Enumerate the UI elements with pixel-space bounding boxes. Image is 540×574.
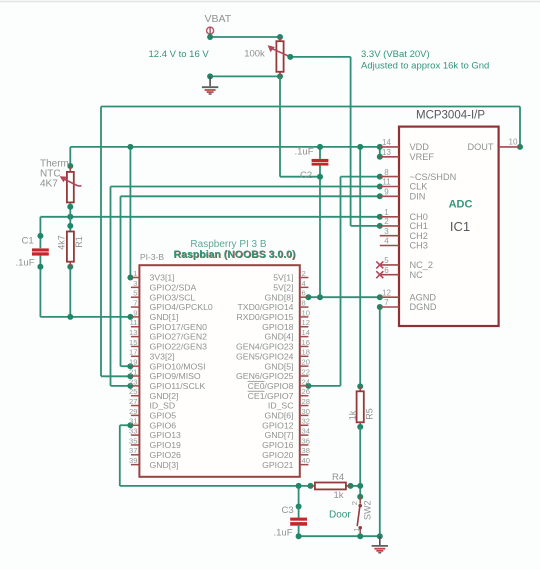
svg-text:5: 5 [384,256,389,265]
svg-text:GPIO6: GPIO6 [150,420,177,430]
svg-text:.1uF: .1uF [274,527,293,538]
svg-text:26: 26 [302,387,310,396]
wire pot bottom to ground [207,73,283,79]
svg-text:GPIO18: GPIO18 [262,322,294,332]
wire VBAT rail to potentiometer top [207,34,283,40]
svg-text:14: 14 [302,328,310,337]
label comment 3.3V adjusted [361,49,489,71]
potentiometer R? 100k [244,37,290,76]
IC2 pin 33 GPIO13 [129,427,181,441]
thermistor TH1 Therm NTC 4K7 [40,158,82,202]
IC2 pin 26 CE1/GPIO7 [248,387,310,401]
svg-text:34: 34 [302,427,310,436]
IC2 pin 2 5V[1] [273,269,308,283]
svg-text:SW2: SW2 [362,500,372,520]
svg-text:18: 18 [302,348,310,357]
svg-text:28: 28 [302,397,310,406]
svg-text:1: 1 [384,208,389,217]
svg-text:5V[2]: 5V[2] [273,282,293,292]
svg-text:NC: NC [410,270,424,280]
svg-text:2: 2 [350,501,359,505]
resistor R4 1k [311,472,351,501]
IC2 pin 4 5V[2] [273,279,308,293]
svg-text:19: 19 [129,358,137,367]
IC2 pin 35 GPIO19 [129,436,181,450]
svg-text:21: 21 [129,367,137,376]
svg-text:GND[7]: GND[7] [265,430,294,440]
wire 3V3 rail (thermistor top, Pi 3V3, C2, R5 rail, MCP VDD/VREF) [67,144,383,390]
svg-text:7: 7 [384,298,389,307]
svg-text:TXD0/GPIO14: TXD0/GPIO14 [237,302,293,312]
IC2 pin 23 GPIO11/SCLK [129,377,206,391]
svg-text:1k: 1k [347,410,357,420]
svg-text:GPIO13: GPIO13 [150,430,182,440]
svg-text:12: 12 [302,318,310,327]
IC1 pin 11 CLK [380,178,428,192]
IC2 pin 15 GPIO22/GEN3 [129,338,207,352]
svg-text:4k7: 4k7 [56,235,66,250]
IC2 pin 16 GEN4/GPIO23 [236,338,310,352]
top border line [0,1,540,3]
IC2 pin 12 GPIO18 [262,318,310,332]
IC2 pin 34 GND[7] [265,427,310,441]
IC2 pin 21 GPIO9/MISO [129,367,201,381]
capacitor C3 .1uF [274,505,308,538]
IC1 pin 14 VDD [380,138,429,152]
svg-text:Adjusted to approx 16k to Gnd: Adjusted to approx 16k to Gnd [361,60,489,71]
svg-text:~CS/SHDN: ~CS/SHDN [410,172,457,182]
IC1 pin 13 VREF [380,148,435,162]
IC2 Raspberry Pi 3 B box [139,239,299,477]
svg-text:31: 31 [129,417,137,426]
svg-text:CLK: CLK [410,182,429,192]
svg-text:25: 25 [129,387,137,396]
IC2 pin 30 GND[6] [265,407,310,421]
IC2 pin 38 GPIO20 [262,446,310,460]
svg-text:ADC: ADC [449,199,473,211]
IC1 pin 6 NC [376,266,423,280]
svg-text:4: 4 [302,279,306,288]
svg-text:9: 9 [133,308,137,317]
svg-text:4: 4 [384,237,389,246]
IC2 pin 40 GPIO21 [262,456,310,470]
svg-text:16: 16 [302,338,310,347]
svg-text:9: 9 [384,188,389,197]
svg-text:GEN4/GPIO23: GEN4/GPIO23 [236,342,294,352]
svg-text:PI-3-B: PI-3-B [140,252,164,262]
IC2 pin 13 GPIO27/GEN2 [129,328,207,342]
IC1 pin 8 ~CS/SHDN [380,168,456,182]
IC2 pin 36 GPIO16 [262,436,310,450]
svg-text:GND[1]: GND[1] [150,312,179,322]
svg-text:GND[3]: GND[3] [150,460,179,470]
svg-text:GPIO21: GPIO21 [262,460,294,470]
IC1 pin 9 DIN [380,188,426,202]
IC2 pin 20 GND[5] [265,358,310,372]
svg-text:35: 35 [129,436,137,445]
IC1 pin 4 CH3 [380,237,428,251]
IC2 pin 5 GPIO3/SCL [131,289,196,303]
svg-text:GEN6/GPIO25: GEN6/GPIO25 [236,371,294,381]
IC1 pin 2 CH1 [380,217,428,231]
IC2 pin 37 GPIO26 [129,446,181,460]
svg-text:.1uF: .1uF [295,147,314,158]
svg-text:1k: 1k [334,490,344,501]
svg-text:17: 17 [129,348,137,357]
svg-text:VBAT: VBAT [205,13,232,25]
IC1 pin 1 CH0 [380,208,428,222]
IC2 pin 6 GND[8] [265,289,309,303]
IC2 pin 22 GEN6/GPIO25 [236,367,310,381]
svg-text:8: 8 [384,168,389,177]
wire Pi GPIO6 to R4 / C3 / SW2 [120,422,363,509]
svg-text:5: 5 [133,289,137,298]
wire pot-bottom gnd net down to C2 bottom and Pi GND[8] [280,76,323,297]
IC2 pin 8 TXD0/GPIO14 [237,298,308,312]
svg-text:39: 39 [129,456,137,465]
svg-text:GPIO20: GPIO20 [262,450,294,460]
IC2 pin 29 GPIO5 [129,407,176,421]
svg-text:23: 23 [129,377,137,386]
resistor R1 4k7 [56,232,83,267]
svg-text:11: 11 [382,178,391,187]
svg-text:GND[5]: GND[5] [265,361,294,371]
svg-text:CE1/GPIO7: CE1/GPIO7 [248,391,294,401]
svg-text:14: 14 [382,138,391,147]
svg-text:DOUT: DOUT [467,142,493,152]
IC2 pin 9 GND[1] [131,308,179,322]
svg-text:ID_SD: ID_SD [150,401,176,411]
svg-text:29: 29 [129,407,137,416]
svg-text:C2: C2 [300,170,312,181]
svg-text:20: 20 [302,358,310,367]
svg-text:11: 11 [130,318,138,327]
svg-text:AGND: AGND [410,292,437,302]
svg-text:GND[8]: GND[8] [265,292,294,302]
IC1 pin 7 DGND [380,298,437,312]
svg-text:36: 36 [302,436,310,445]
svg-text:CH3: CH3 [410,241,428,251]
IC2 pin 25 GND[2] [129,387,178,401]
svg-text:GND[2]: GND[2] [150,391,179,401]
svg-text:6: 6 [384,266,389,275]
wire MCP ~CS/SHDN to Pi CE0/GPIO8 [305,174,382,389]
svg-text:Door: Door [329,510,351,521]
capacitor C1 .1uF [16,236,49,269]
svg-text:MCP3004-I/P: MCP3004-I/P [416,110,485,122]
svg-text:GPIO17/GEN0: GPIO17/GEN0 [150,322,208,332]
svg-text:GPIO16: GPIO16 [262,440,294,450]
IC2 pin 32 GPIO12 [262,417,310,431]
svg-text:ID_SC: ID_SC [268,401,294,411]
IC2 pin 19 GPIO10/MOSI [129,358,205,372]
svg-text:CH2: CH2 [410,231,428,241]
svg-text:GPIO19: GPIO19 [150,440,182,450]
capacitor C2 .1uF [295,147,329,181]
svg-text:33: 33 [129,427,137,436]
switch SW2 Door [329,497,372,537]
svg-text:R5: R5 [364,408,374,420]
svg-text:GPIO26: GPIO26 [150,450,182,460]
svg-text:R1: R1 [74,236,84,248]
IC2 pin 3 GPIO2/SDA [131,279,197,293]
svg-text:GPIO4/GPCKL0: GPIO4/GPCKL0 [150,302,213,312]
svg-text:12: 12 [382,288,391,297]
wire MCP CLK to Pi GPIO11/SCLK [111,184,383,389]
IC2 pin 27 ID_SD [129,397,175,411]
svg-text:27: 27 [129,397,137,406]
svg-text:3V3[1]: 3V3[1] [150,273,175,283]
op-amp U1 / ADC IC1 MCP3004 box [399,110,499,326]
wire MCP AGND to Pi GND[8] [305,294,382,300]
resistor R5 1k [347,386,374,486]
IC2 pin 24 CE0/GPIO8 [248,377,310,391]
svg-text:30: 30 [302,407,310,416]
svg-text:7: 7 [133,298,137,307]
svg-text:C3: C3 [282,505,294,516]
svg-text:100k: 100k [244,48,265,59]
svg-text:10: 10 [509,137,518,146]
svg-text:6: 6 [302,289,306,298]
svg-text:.1uF: .1uF [16,257,35,268]
ground symbol bottom [372,536,388,553]
svg-text:GPIO9/MISO: GPIO9/MISO [150,371,201,381]
ground symbol top [202,76,218,94]
IC2 pin 1 3V3[1] [131,269,175,283]
svg-text:DIN: DIN [410,192,426,202]
svg-text:13: 13 [382,148,391,157]
svg-text:3.3V (VBat 20V): 3.3V (VBat 20V) [361,49,430,60]
svg-text:40: 40 [302,456,310,465]
svg-text:GPIO12: GPIO12 [262,420,294,430]
svg-text:GPIO5: GPIO5 [150,411,177,421]
IC1 pin 5 NC_2 [376,256,433,270]
wire C1/R1 bottom to Pi GND[1] [37,256,133,320]
svg-text:CH1: CH1 [410,221,428,231]
svg-text:3: 3 [384,227,389,236]
wire pot wiper to MCP CH1 [287,54,383,229]
svg-text:NC_2: NC_2 [410,260,434,270]
svg-text:C1: C1 [22,236,34,247]
svg-text:3: 3 [133,279,137,288]
svg-text:12.4 V to 16 V: 12.4 V to 16 V [149,49,210,60]
svg-text:13: 13 [129,328,137,337]
IC2 pin 28 ID_SC [268,397,310,411]
svg-text:38: 38 [302,446,310,455]
IC1 pin 12 AGND [380,288,437,302]
svg-text:CE0/GPIO8: CE0/GPIO8 [248,381,294,391]
svg-text:VREF: VREF [410,152,435,162]
svg-text:GPIO27/GEN2: GPIO27/GEN2 [150,332,208,342]
svg-text:8: 8 [302,298,306,307]
wire MCP DIN to Pi GPIO10/MOSI [121,193,383,369]
svg-text:GPIO11/SCLK: GPIO11/SCLK [150,381,206,391]
svg-text:24: 24 [302,377,310,386]
wire thermistor to R1 [67,166,73,232]
IC1 pin 10 DOUT [467,137,520,152]
svg-text:10: 10 [302,308,310,317]
svg-text:GEN5/GPIO24: GEN5/GPIO24 [236,351,294,361]
IC2 pin 18 GEN5/GPIO24 [236,348,310,362]
IC2 pin 11 GPIO17/GEN0 [130,318,208,332]
svg-text:R4: R4 [332,472,344,483]
svg-text:1: 1 [352,528,361,532]
svg-text:Raspbian (NOOBS 3.0.0): Raspbian (NOOBS 3.0.0) [174,248,296,260]
IC2 pin 10 RXD0/GPIO15 [237,308,310,322]
svg-text:DGND: DGND [410,302,437,312]
label comment 12.4 V to 16 V [149,49,210,60]
svg-text:GPIO10/MOSI: GPIO10/MOSI [150,361,206,371]
svg-text:IC1: IC1 [450,219,470,234]
IC2 pin 31 GPIO6 [129,417,176,431]
node VBAT supply symbol [205,13,232,34]
svg-text:3V3[2]: 3V3[2] [150,351,175,361]
IC2 pin 17 3V3[2] [129,348,175,362]
svg-text:5V[1]: 5V[1] [273,273,293,283]
svg-text:2: 2 [302,269,306,278]
svg-text:GND[4]: GND[4] [265,332,294,342]
svg-text:32: 32 [302,417,310,426]
svg-text:2: 2 [384,217,389,226]
svg-text:GPIO2/SDA: GPIO2/SDA [150,282,197,292]
wire bottom ground net (C3, SW2, MCP DGND) [296,304,383,539]
svg-text:15: 15 [129,338,137,347]
IC2 pin 14 GND[4] [265,328,310,342]
IC2 pin 39 GND[3] [129,456,178,470]
svg-text:GPIO22/GEN3: GPIO22/GEN3 [150,342,208,352]
svg-text:GPIO3/SCL: GPIO3/SCL [150,292,196,302]
wire thermistor junction to MCP CH0 and C1 top [37,214,382,248]
wire MCP DOUT to Pi GPIO9/MISO [101,107,523,380]
svg-text:4K7: 4K7 [40,179,58,190]
svg-text:22: 22 [302,367,310,376]
svg-text:VDD: VDD [410,142,430,152]
IC2 pin 7 GPIO4/GPCKL0 [131,298,213,312]
svg-text:GND[6]: GND[6] [265,411,294,421]
IC1 pin 3 CH2 [380,227,428,241]
svg-text:RXD0/GPIO15: RXD0/GPIO15 [237,312,294,322]
svg-text:1: 1 [133,269,137,278]
svg-text:37: 37 [129,446,137,455]
